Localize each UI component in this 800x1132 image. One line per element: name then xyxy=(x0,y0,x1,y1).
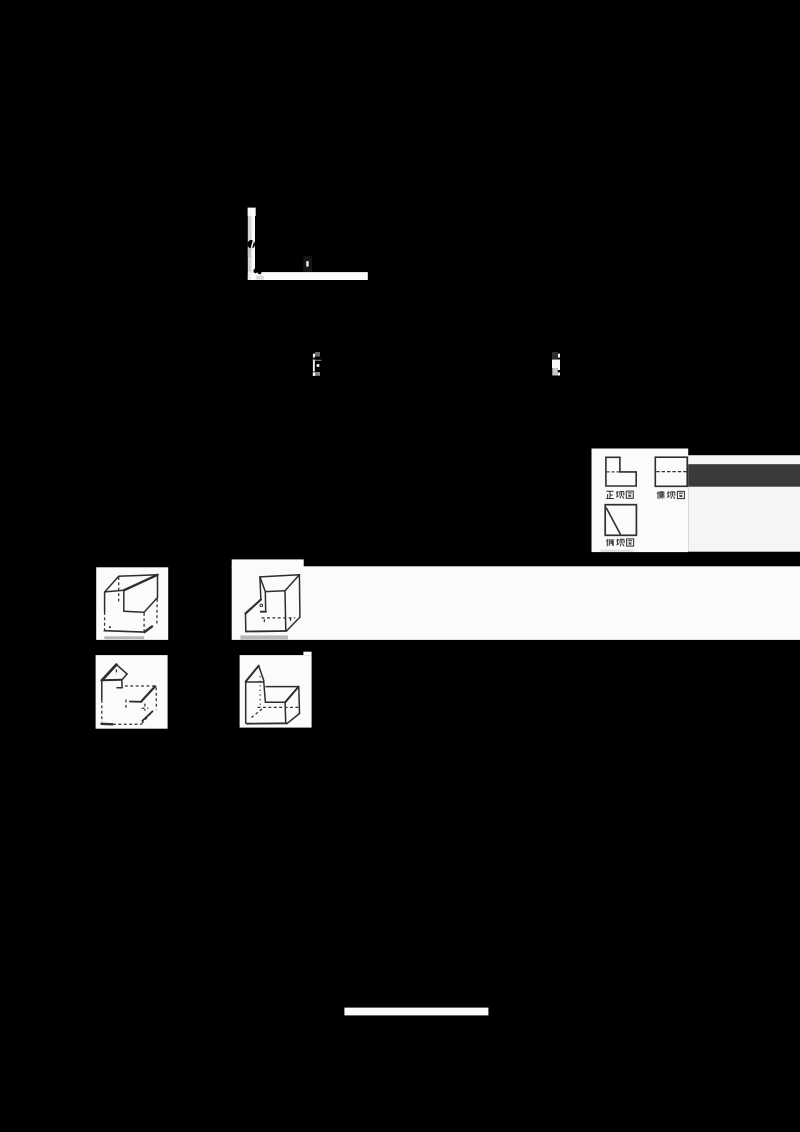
dark gray band xyxy=(688,464,800,487)
axis figure: black point on bar xyxy=(248,240,255,249)
option D top-right notch xyxy=(303,652,311,655)
axis figure: gray patch at bar left end xyxy=(248,274,251,280)
option C solid lines xyxy=(101,665,155,725)
axis figure: white speck in label box xyxy=(306,261,309,267)
axis figure: vertical bar cap xyxy=(248,208,256,216)
option D dashed lines xyxy=(251,676,298,718)
option B drawing xyxy=(246,575,300,632)
axis figure: gray segment in horizontal bar xyxy=(256,276,264,280)
option B white band xyxy=(232,566,800,640)
top view square xyxy=(605,505,636,536)
option D solid lines xyxy=(246,666,300,724)
side view label xyxy=(657,491,684,499)
option B circle marker xyxy=(260,604,263,607)
three-views white box xyxy=(592,449,689,553)
front view L-shape xyxy=(606,457,636,486)
option A dot xyxy=(109,626,111,628)
gray underline under top view label xyxy=(601,550,634,552)
option B box top extension xyxy=(232,559,304,568)
axis figure: corner blob xyxy=(253,268,262,274)
top view label xyxy=(606,539,633,547)
front view label xyxy=(606,491,633,499)
option A white box xyxy=(96,567,168,640)
option B dashed lines xyxy=(262,618,296,624)
speck fragment 2 xyxy=(552,352,560,376)
axis figure: white slash through point xyxy=(251,240,254,250)
axis figure: faint label box xyxy=(303,256,312,272)
bottom white bar xyxy=(344,1008,488,1016)
axis figure: vertical bar white right strip xyxy=(251,216,255,272)
option C white box xyxy=(96,655,168,729)
option A dashed lines xyxy=(105,577,158,631)
top view diagonal xyxy=(606,508,620,535)
axis figure: horizontal white bar xyxy=(248,272,368,280)
side view dashed line xyxy=(656,471,687,473)
axis figure: vertical bar gray left strip xyxy=(248,216,251,272)
option A gray streak xyxy=(104,636,144,639)
front view dashed line xyxy=(607,471,620,473)
axis figure: white notch in corner blob xyxy=(256,273,259,274)
option D white box xyxy=(240,655,312,728)
option C dashed lines xyxy=(102,670,157,725)
right white strip xyxy=(688,455,800,552)
axis figure: vertical bar gray darker segment xyxy=(248,249,251,258)
option B gray streak xyxy=(240,635,288,639)
option A solid lines xyxy=(104,575,157,632)
speck fragment 1 xyxy=(313,352,322,376)
side view rectangle xyxy=(655,457,687,486)
axis figure: corner blob nub xyxy=(258,272,261,274)
